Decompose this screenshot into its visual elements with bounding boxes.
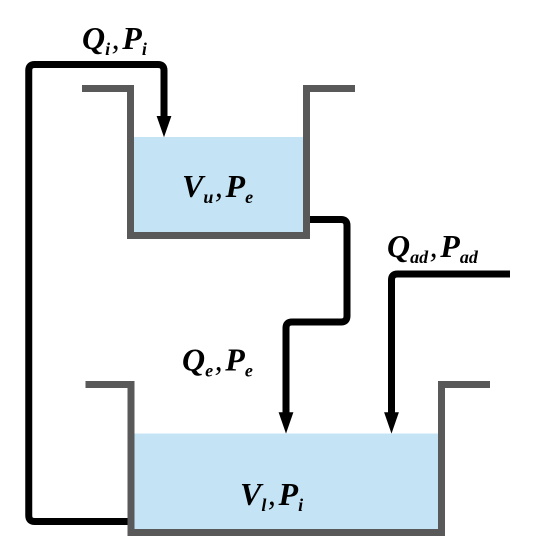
wire feedback loop Q_i [29,65,164,522]
arrowhead Q_i inflow [157,116,172,137]
wire additional inflow Q_ad [392,274,511,415]
arrowhead Q_e into lower tank [279,412,294,433]
svg-text:Qe, Pe: Qe, Pe [182,342,253,381]
wire pipe upper tank outflow Q_e [286,220,347,416]
svg-text:Qad, Pad: Qad, Pad [387,228,479,267]
svg-text:Qi, Pi: Qi, Pi [82,20,147,59]
upper tank walls [82,89,355,236]
lower tank water V_l [131,434,442,533]
arrowhead Q_ad into lower tank [384,412,399,433]
svg-text:Vu, Pe: Vu, Pe [182,168,253,207]
upper tank water V_u [131,137,307,236]
svg-text:Vl, Pi: Vl, Pi [240,476,303,515]
lower tank walls [86,385,491,533]
